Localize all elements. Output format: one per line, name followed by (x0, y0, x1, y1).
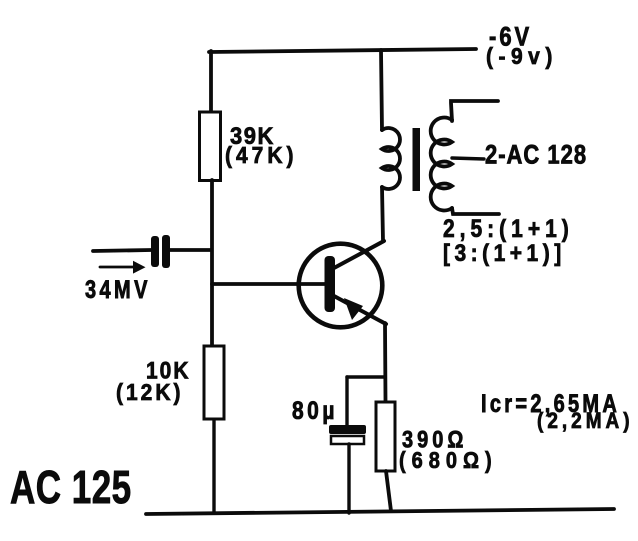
transistor Q1 AC125 (299, 241, 386, 327)
transformer T1 core (413, 128, 421, 191)
capacitor C2 80u bypass (329, 425, 366, 444)
wire emitter branch horizontal (347, 375, 385, 378)
wire input left segment (93, 250, 151, 251)
wire emitter vertical to R3 (383, 323, 387, 402)
resistor R2 10K (204, 346, 224, 419)
resistor R1 39K (200, 112, 221, 181)
wire left vertical from rail to R1 (209, 51, 213, 113)
capacitor C1 input coupling (151, 235, 170, 268)
transformer T1 primary winding (382, 128, 400, 189)
arrow signal direction (100, 261, 146, 274)
wire R1 bottom down to R2 (210, 180, 214, 347)
transformer T1 secondary winding (431, 118, 452, 211)
wire R3 bottom to ground rail (386, 471, 391, 511)
wire below R2 to ground rail (212, 419, 215, 513)
wire secondary top terminal (451, 101, 498, 121)
svg-text:AC 125: AC 125 (10, 461, 132, 513)
svg-text:(-9v): (-9v) (486, 43, 558, 69)
wire bottom ground rail (146, 509, 614, 514)
wire secondary center tap (452, 158, 484, 159)
svg-text:(680Ω): (680Ω) (399, 447, 498, 474)
svg-text:2-AC 128: 2-AC 128 (485, 141, 587, 170)
svg-text:(12K): (12K) (116, 379, 183, 405)
wire collector vertical to transformer (382, 187, 383, 241)
svg-text:34MV: 34MV (85, 276, 151, 304)
wire below C2 to ground rail (347, 444, 350, 513)
wire bypass branch vertical (345, 377, 348, 426)
resistor R3 390 ohm (376, 402, 395, 471)
wire input right segment to node (170, 248, 211, 252)
wire from top rail to transformer primary (381, 50, 382, 130)
wire secondary bottom terminal (452, 208, 499, 214)
svg-text:[3:(1+1)]: [3:(1+1)] (443, 240, 566, 267)
svg-text:(2,2MA): (2,2MA) (537, 409, 634, 434)
svg-text:80µ: 80µ (292, 396, 338, 424)
wire top supply rail (209, 49, 476, 52)
svg-text:2,5:(1+1): 2,5:(1+1) (443, 214, 574, 242)
svg-text:(47K): (47K) (225, 142, 297, 168)
wire base to transistor (212, 282, 326, 286)
